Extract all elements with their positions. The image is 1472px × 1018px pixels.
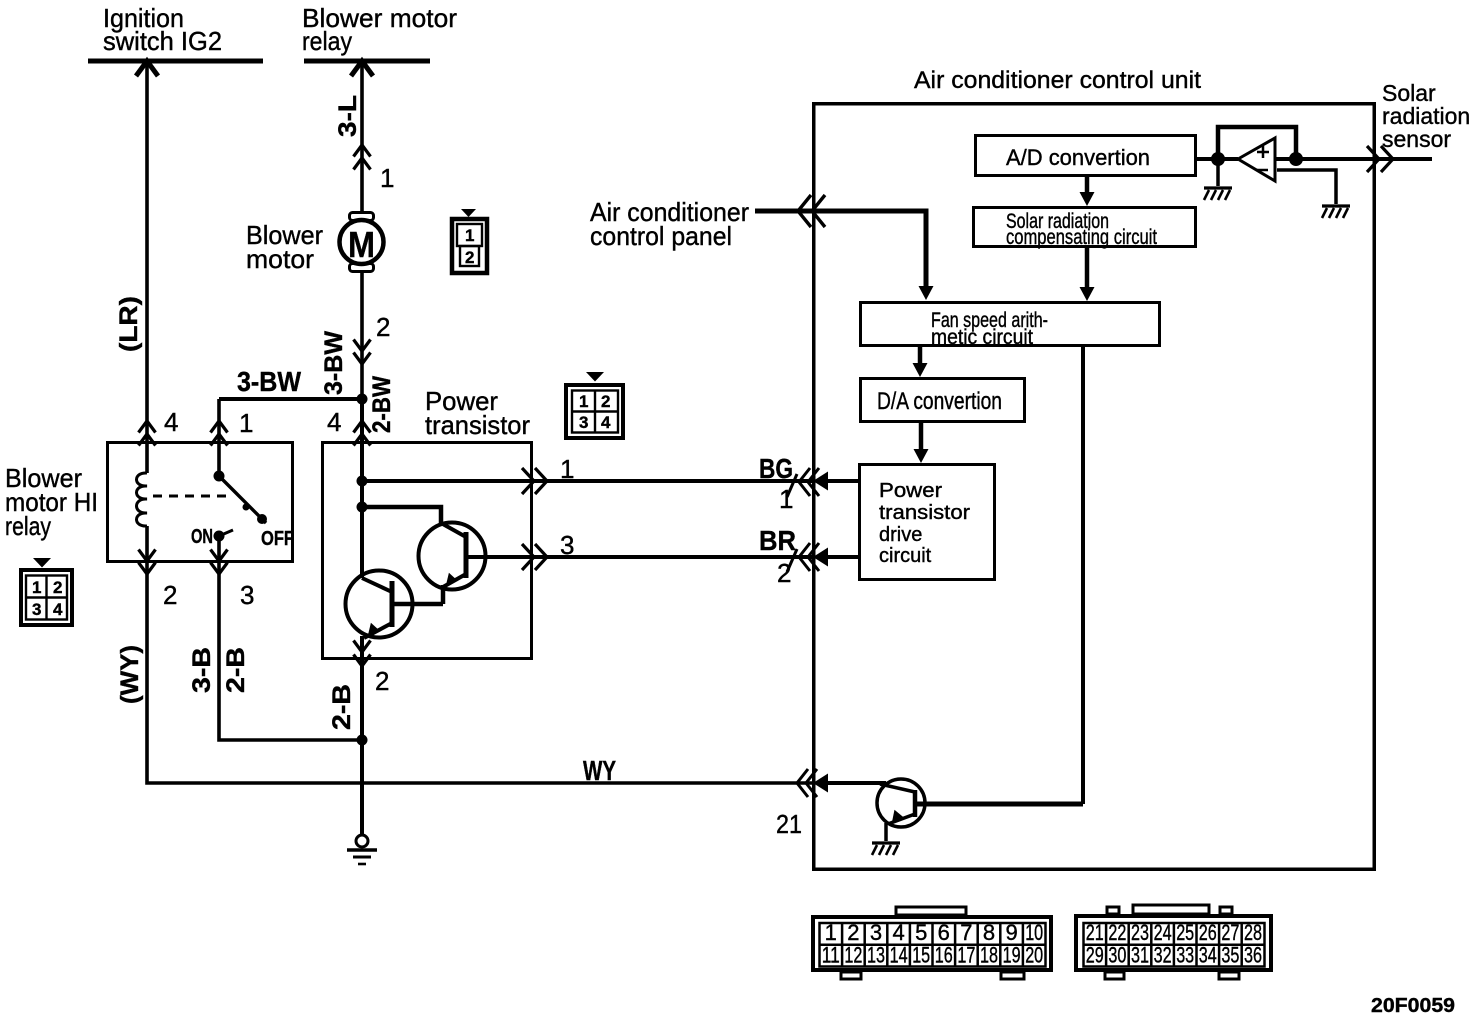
svg-text:3: 3	[579, 413, 588, 432]
svg-text:22: 22	[1108, 920, 1126, 945]
svg-text:M: M	[348, 224, 375, 265]
svg-text:2: 2	[376, 312, 390, 342]
svg-text:2-B: 2-B	[328, 684, 356, 730]
svg-text:1: 1	[239, 408, 253, 438]
svg-text:3-B: 3-B	[188, 647, 216, 693]
svg-text:34: 34	[1199, 943, 1217, 968]
svg-text:2: 2	[163, 580, 177, 610]
svg-text:3: 3	[560, 530, 574, 560]
svg-text:8: 8	[983, 920, 995, 945]
svg-text:A/D convertion: A/D convertion	[1006, 145, 1150, 170]
svg-text:7: 7	[960, 920, 972, 945]
svg-text:drive: drive	[879, 524, 922, 546]
svg-text:4: 4	[164, 407, 178, 437]
svg-text:compensating circuit: compensating circuit	[1006, 226, 1157, 249]
svg-text:4: 4	[601, 413, 611, 432]
svg-text:31: 31	[1131, 943, 1149, 968]
svg-text:30: 30	[1108, 943, 1126, 968]
svg-text:2: 2	[847, 920, 859, 945]
svg-text:6: 6	[938, 920, 950, 945]
svg-text:1: 1	[32, 578, 41, 597]
svg-text:29: 29	[1086, 943, 1104, 968]
svg-text:3-BW: 3-BW	[320, 331, 348, 395]
svg-text:(WY): (WY)	[116, 645, 144, 704]
svg-text:2-BW: 2-BW	[368, 376, 396, 433]
svg-text:26: 26	[1199, 920, 1217, 945]
svg-text:3: 3	[32, 600, 41, 619]
svg-text:25: 25	[1176, 920, 1194, 945]
svg-text:metic circuit: metic circuit	[931, 326, 1033, 349]
svg-text:transistor: transistor	[879, 502, 970, 524]
svg-text:3: 3	[870, 920, 882, 945]
svg-text:(LR): (LR)	[115, 296, 143, 352]
svg-text:circuit: circuit	[879, 545, 932, 567]
svg-text:2: 2	[465, 248, 474, 267]
svg-text:27: 27	[1221, 920, 1239, 945]
svg-text:32: 32	[1154, 943, 1172, 968]
svg-text:5: 5	[915, 920, 927, 945]
svg-text:3-BW: 3-BW	[237, 366, 302, 397]
svg-text:3: 3	[240, 580, 254, 610]
svg-text:9: 9	[1005, 920, 1017, 945]
svg-text:23: 23	[1131, 920, 1149, 945]
svg-text:21: 21	[776, 809, 802, 839]
svg-text:10: 10	[1025, 920, 1043, 945]
svg-text:relay: relay	[5, 511, 51, 541]
svg-text:motor: motor	[246, 244, 314, 274]
svg-text:4: 4	[53, 600, 63, 619]
svg-text:24: 24	[1154, 920, 1172, 945]
svg-text:control panel: control panel	[590, 221, 732, 251]
svg-text:33: 33	[1176, 943, 1194, 968]
svg-text:16: 16	[935, 943, 953, 968]
svg-text:18: 18	[980, 943, 998, 968]
svg-text:BR: BR	[759, 525, 796, 556]
svg-text:17: 17	[957, 943, 975, 968]
svg-text:BG: BG	[759, 453, 793, 484]
svg-text:1: 1	[579, 392, 588, 411]
svg-text:Air conditioner control unit: Air conditioner control unit	[914, 67, 1201, 94]
svg-text:21: 21	[1086, 920, 1104, 945]
svg-text:3-L: 3-L	[334, 95, 362, 137]
svg-text:12: 12	[844, 943, 862, 968]
svg-text:1: 1	[380, 163, 394, 193]
svg-text:1: 1	[465, 226, 474, 245]
svg-text:ON: ON	[191, 526, 213, 548]
svg-text:sensor: sensor	[1382, 126, 1451, 152]
svg-text:OFF: OFF	[261, 528, 294, 550]
svg-text:20F0059: 20F0059	[1371, 995, 1455, 1017]
svg-text:36: 36	[1244, 943, 1262, 968]
svg-text:2-B: 2-B	[222, 647, 250, 693]
svg-text:2: 2	[601, 392, 610, 411]
svg-text:14: 14	[890, 943, 908, 968]
svg-text:1: 1	[560, 454, 574, 484]
svg-text:13: 13	[867, 943, 885, 968]
svg-text:switch IG2: switch IG2	[103, 26, 222, 56]
svg-text:4: 4	[892, 920, 904, 945]
svg-text:28: 28	[1244, 920, 1262, 945]
svg-text:Power: Power	[879, 480, 942, 502]
svg-text:1: 1	[825, 920, 837, 945]
svg-text:15: 15	[912, 943, 930, 968]
svg-text:35: 35	[1221, 943, 1239, 968]
svg-text:transistor: transistor	[425, 410, 530, 440]
svg-text:2: 2	[777, 558, 791, 588]
svg-text:relay: relay	[302, 26, 352, 56]
svg-text:WY: WY	[583, 755, 616, 786]
svg-text:4: 4	[327, 407, 341, 437]
svg-text:1: 1	[779, 484, 793, 514]
svg-text:11: 11	[822, 943, 840, 968]
svg-text:2: 2	[53, 578, 62, 597]
svg-text:20: 20	[1025, 943, 1043, 968]
svg-text:2: 2	[375, 666, 389, 696]
svg-text:19: 19	[1003, 943, 1021, 968]
svg-text:D/A convertion: D/A convertion	[877, 388, 1002, 415]
